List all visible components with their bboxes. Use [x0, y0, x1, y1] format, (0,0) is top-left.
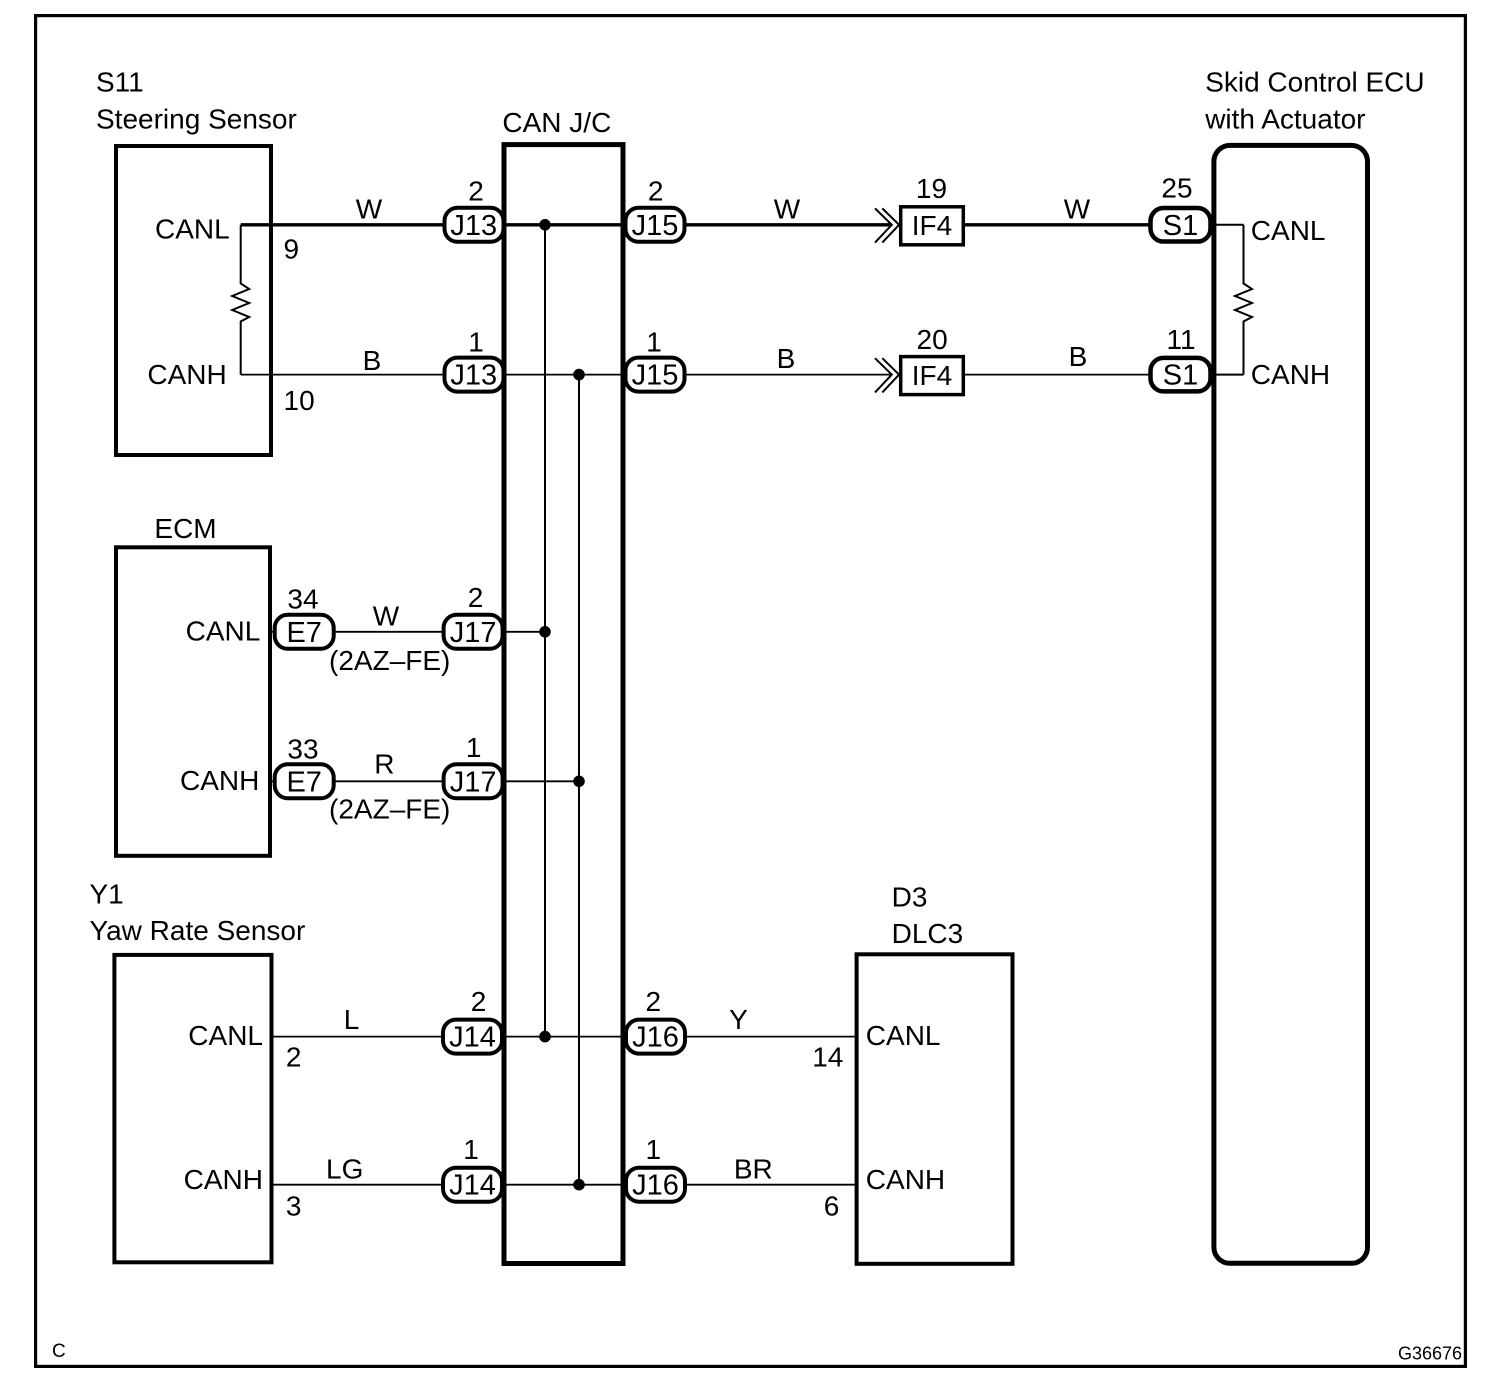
connector oval J17 pin 2	[444, 615, 503, 649]
svg-text:J14: J14	[449, 1170, 496, 1202]
svg-text:14: 14	[812, 1042, 843, 1073]
wire ECM CANH row4 (R)	[272, 780, 579, 782]
svg-text:E7: E7	[286, 617, 321, 649]
svg-text:25: 25	[1161, 172, 1192, 203]
wire CANH bus row2 (B) S11 to IF4	[241, 374, 891, 376]
connector oval J15 pin 2	[626, 208, 685, 242]
svg-text:CAN J/C: CAN J/C	[502, 107, 611, 138]
svg-text:ECM: ECM	[154, 513, 216, 544]
svg-text:W: W	[1064, 194, 1091, 225]
wire row2 stub inside Skid ECU	[1211, 374, 1244, 376]
node junction row2 x579	[573, 369, 585, 381]
connector oval J16 pin 2	[626, 1020, 685, 1054]
connector oval J13 pin 2	[445, 208, 504, 242]
svg-text:CANH: CANH	[184, 1164, 263, 1195]
svg-text:S11: S11	[96, 66, 144, 97]
node junction row5 x545	[539, 1031, 551, 1043]
svg-text:1: 1	[646, 1134, 662, 1165]
connector oval J14 pin 2	[443, 1020, 502, 1054]
svg-text:W: W	[373, 600, 400, 631]
svg-text:2: 2	[286, 1042, 302, 1073]
connector oval J13 pin 1	[445, 358, 504, 392]
connector oval S1 pin 25	[1151, 208, 1211, 242]
svg-text:W: W	[774, 194, 801, 225]
D3 DLC3 box	[857, 954, 1013, 1264]
svg-text:S1: S1	[1163, 360, 1198, 392]
svg-text:19: 19	[916, 173, 947, 204]
svg-text:CANH: CANH	[147, 359, 226, 390]
svg-text:1: 1	[463, 1134, 479, 1165]
svg-text:CANH: CANH	[866, 1164, 945, 1195]
svg-text:9: 9	[284, 233, 300, 264]
svg-text:BR: BR	[734, 1154, 773, 1185]
svg-text:3: 3	[286, 1191, 302, 1222]
CAN J/C junction connector box	[504, 145, 623, 1264]
svg-text:G36676: G36676	[1398, 1344, 1462, 1364]
svg-text:20: 20	[917, 324, 948, 355]
ECM box	[116, 547, 270, 856]
svg-text:W: W	[356, 194, 383, 225]
resistor R-terminating in Skid Control ECU with connecting wire	[1235, 225, 1252, 375]
svg-text:Skid Control ECU: Skid Control ECU	[1205, 66, 1424, 97]
svg-text:S1: S1	[1163, 210, 1198, 242]
connector oval J14 pin 1	[443, 1168, 502, 1202]
svg-text:CANH: CANH	[1251, 359, 1330, 390]
svg-text:2: 2	[648, 175, 664, 206]
connector oval J15 pin 1	[626, 358, 685, 392]
svg-text:E7: E7	[286, 766, 321, 798]
svg-text:J17: J17	[450, 617, 497, 649]
svg-text:34: 34	[287, 584, 318, 615]
svg-text:B: B	[1069, 341, 1088, 372]
svg-text:Yaw Rate Sensor: Yaw Rate Sensor	[90, 915, 306, 946]
svg-text:D3: D3	[892, 882, 928, 913]
wire Yaw CANH row6 (LG / BR)	[274, 1184, 855, 1186]
connector oval E7 pin 33	[275, 764, 334, 798]
svg-text:L: L	[344, 1004, 360, 1035]
wire vertical bus in CAN J/C (CANL net)	[544, 225, 546, 1037]
connector oval J16 pin 1	[626, 1168, 685, 1202]
svg-text:Y: Y	[729, 1004, 748, 1035]
svg-text:Y1: Y1	[90, 879, 124, 910]
svg-text:1: 1	[466, 732, 482, 763]
connector oval E7 pin 34	[275, 615, 334, 649]
svg-text:2: 2	[646, 986, 662, 1017]
node junction row6 x579	[573, 1179, 585, 1191]
svg-text:6: 6	[824, 1191, 840, 1222]
svg-text:B: B	[777, 343, 796, 374]
connector oval S1 pin 11	[1151, 358, 1211, 392]
svg-text:with Actuator: with Actuator	[1204, 104, 1365, 135]
svg-text:2: 2	[468, 582, 484, 613]
svg-text:J14: J14	[449, 1022, 496, 1054]
svg-text:CANL: CANL	[188, 1020, 263, 1051]
svg-text:J17: J17	[450, 766, 497, 798]
svg-text:J15: J15	[632, 210, 679, 242]
svg-text:CANL: CANL	[1251, 215, 1326, 246]
resistor R-terminating in S11 with connecting wire	[232, 225, 249, 375]
chevron arrows into IF4 pin19	[875, 208, 899, 242]
svg-text:J16: J16	[632, 1170, 679, 1202]
wire row1 IF4 to S1 (W)	[963, 223, 1213, 226]
wire Yaw CANL row5 (L / Y)	[274, 1036, 855, 1038]
node junction row1 x545	[539, 219, 551, 231]
svg-text:J16: J16	[632, 1022, 679, 1054]
svg-text:CANL: CANL	[186, 616, 261, 647]
wire row1 stub inside Skid ECU	[1211, 224, 1244, 226]
connector IF4 pin 20 box	[901, 357, 964, 395]
svg-text:2: 2	[468, 175, 484, 206]
svg-text:CANL: CANL	[155, 214, 230, 245]
svg-text:J13: J13	[450, 210, 497, 242]
wire ECM CANL row3 (W)	[272, 631, 545, 633]
svg-text:J13: J13	[450, 360, 497, 392]
Skid Control ECU with Actuator box	[1214, 145, 1368, 1263]
Y1 Yaw Rate Sensor box	[114, 955, 271, 1262]
svg-text:(2AZ–FE): (2AZ–FE)	[329, 793, 450, 824]
svg-text:2: 2	[471, 986, 487, 1017]
svg-text:33: 33	[287, 733, 318, 764]
wire vertical bus in CAN J/C (CANH net)	[578, 375, 580, 1185]
svg-text:R: R	[374, 749, 394, 780]
S11 Steering Sensor box	[116, 146, 271, 455]
svg-text:11: 11	[1166, 324, 1195, 355]
connector IF4 pin 19 box	[901, 207, 964, 245]
node junction row3 x545	[539, 626, 551, 638]
svg-text:CANL: CANL	[866, 1020, 941, 1051]
svg-text:IF4: IF4	[912, 210, 952, 241]
svg-text:J15: J15	[632, 360, 679, 392]
svg-text:Steering Sensor: Steering Sensor	[96, 104, 297, 135]
svg-text:CANH: CANH	[180, 765, 259, 796]
svg-text:DLC3: DLC3	[892, 918, 964, 949]
svg-text:IF4: IF4	[912, 360, 952, 391]
wire CANL bus row1 (W) S11 to Skid ECU	[241, 223, 891, 226]
svg-text:B: B	[363, 345, 382, 376]
svg-text:(2AZ–FE): (2AZ–FE)	[329, 645, 450, 676]
chevron arrows into IF4 pin20	[875, 358, 899, 392]
node junction row4 x579	[573, 776, 585, 788]
connector oval J17 pin 1	[444, 764, 503, 798]
svg-text:LG: LG	[326, 1154, 363, 1185]
wire row2 IF4 to S1 (B)	[963, 374, 1213, 376]
svg-text:1: 1	[646, 327, 662, 358]
svg-text:1: 1	[468, 327, 484, 358]
svg-text:C: C	[52, 1341, 66, 1362]
svg-text:10: 10	[284, 385, 315, 416]
